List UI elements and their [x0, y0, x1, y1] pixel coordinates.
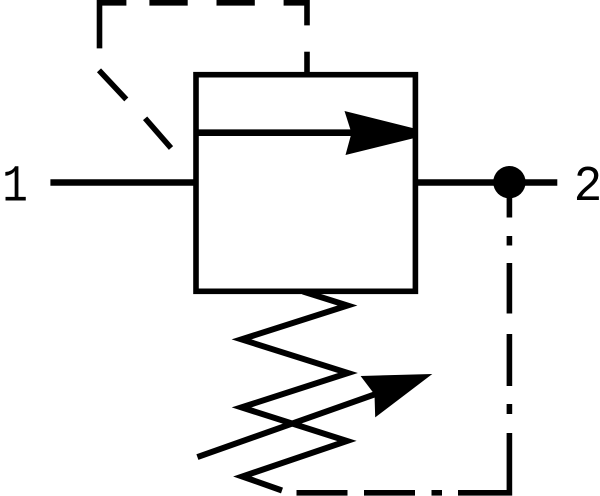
svg-text:2: 2 [574, 158, 600, 216]
svg-text:1: 1 [2, 158, 28, 217]
